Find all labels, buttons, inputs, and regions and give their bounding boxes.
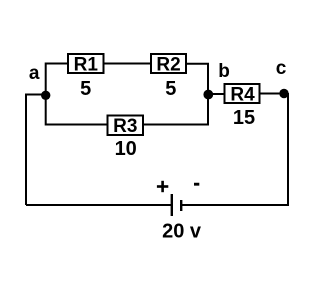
svg-text:15: 15 bbox=[233, 107, 255, 129]
svg-text:R1: R1 bbox=[74, 55, 99, 76]
svg-text:a: a bbox=[29, 63, 40, 84]
svg-text:R2: R2 bbox=[156, 55, 180, 76]
svg-text:R3: R3 bbox=[113, 116, 137, 137]
svg-text:R4: R4 bbox=[230, 85, 255, 106]
svg-text:10: 10 bbox=[115, 138, 137, 160]
svg-text:20 v: 20 v bbox=[162, 220, 202, 242]
svg-text:c: c bbox=[276, 58, 287, 79]
svg-text:5: 5 bbox=[80, 78, 91, 100]
svg-text:b: b bbox=[218, 61, 230, 82]
svg-text:5: 5 bbox=[165, 78, 176, 100]
